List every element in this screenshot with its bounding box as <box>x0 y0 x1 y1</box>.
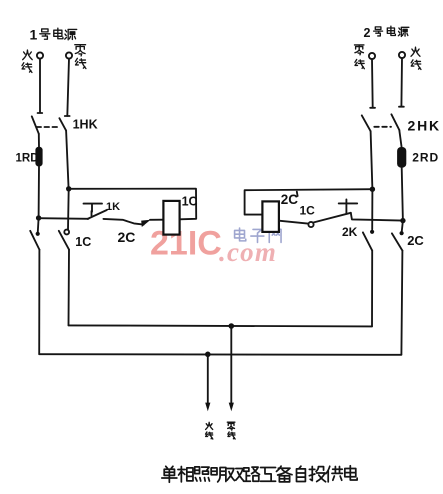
caption 单相照明双路互备自投供电 <box>162 466 357 482</box>
outer live bus <box>39 353 401 356</box>
terminal 零线 source 2 <box>369 53 375 59</box>
label 火线 (live, source 1) <box>22 50 32 72</box>
wire arrow to coil 1C <box>150 219 163 221</box>
contact 2C (NC interlock) arrowhead <box>141 220 150 227</box>
label 2C (main contacts) <box>407 233 424 248</box>
wire live-1 contact to outer bus <box>38 250 40 354</box>
label 1RD <box>16 152 39 164</box>
switch 2HK pole B blade <box>391 114 399 130</box>
terminal 火线 source 2 <box>399 52 405 58</box>
contact 2C main pole B stub <box>400 221 404 236</box>
label 2RD <box>412 151 439 165</box>
wire live-2 terminal to switch <box>399 58 404 106</box>
label 2HK <box>408 117 441 133</box>
contact 1C main pole A blade <box>30 231 39 250</box>
push button 1K actuator <box>84 204 103 216</box>
svg-text:21IC: 21IC <box>150 225 222 263</box>
junction neutral-2 / top wire <box>370 187 375 192</box>
label 1C (interlock contact) <box>300 204 316 218</box>
fuse 2RD <box>397 147 406 168</box>
junction neutral bus / output <box>229 323 235 329</box>
label 零线 (neutral, source 2) <box>354 45 364 69</box>
contact 1C blade <box>314 213 351 223</box>
contact 1C main pole B blade <box>59 231 69 250</box>
label 零线 (output neutral) <box>227 422 235 439</box>
contact 2C main pole A stub <box>370 230 374 234</box>
output neutral wire with arrow <box>229 326 234 411</box>
wire neutral-1 contact to inner bus <box>68 250 71 326</box>
svg-text:2HK: 2HK <box>408 117 441 133</box>
watermark .com script <box>219 237 277 267</box>
svg-text:1K: 1K <box>106 201 120 213</box>
svg-text:2RD: 2RD <box>412 151 439 165</box>
label 2号电源 (source 2) <box>364 26 409 40</box>
wire live-1 fuse to bus <box>38 166 40 218</box>
contact 1C (NC interlock) pivot circle <box>308 222 313 227</box>
wire neutral-1 from terminal to switch <box>65 59 70 117</box>
label 2C (coil) <box>281 192 299 208</box>
contact 2C main pole A blade <box>363 232 372 250</box>
switch 2HK pole A blade <box>362 115 371 131</box>
svg-text:1RD: 1RD <box>16 152 39 164</box>
svg-text:2C: 2C <box>281 192 299 207</box>
label 1号电源 (source 1) <box>30 27 77 43</box>
relay coil 2C <box>262 201 279 232</box>
wire neutral-1 junction down past bus <box>67 189 70 230</box>
label 1K <box>106 201 120 213</box>
inner neutral bus <box>69 325 373 326</box>
terminal 零线 source 1 <box>66 52 72 58</box>
junction live-1 / control bus <box>36 215 41 220</box>
svg-text:2K: 2K <box>342 225 358 239</box>
wire neutral-2 contact to inner bus <box>371 251 373 327</box>
terminal 火线 source 1 <box>37 52 43 58</box>
switch 1HK linkage dashes <box>37 126 60 128</box>
wire top right (neutral-2 to coil 2C) <box>245 189 373 214</box>
switch 1HK pole A blade <box>32 116 39 133</box>
wire neutral-2 switch to junction <box>371 131 373 189</box>
junction live bus / output <box>205 352 211 358</box>
junction neutral-1 / coil wire <box>66 186 71 191</box>
relay coil 1C <box>163 201 179 235</box>
wire neutral-2 terminal to switch <box>370 59 375 108</box>
switch 2HK linkage dashes <box>374 126 391 128</box>
junction live-2 / control bus <box>400 218 405 223</box>
wire coil 1C right side to neutral-1 <box>69 189 197 220</box>
contact 2C main pole B blade <box>392 233 403 250</box>
label 火线 (live, source 2) <box>411 47 421 69</box>
label 1HK <box>73 118 98 132</box>
watermark 电子网 <box>235 228 281 242</box>
wire neutral-2 junction down past bus <box>371 189 373 229</box>
svg-text:1HK: 1HK <box>73 118 98 132</box>
label 1C (coil) <box>182 194 198 208</box>
label 2K <box>342 225 358 239</box>
label 1C (main contacts) <box>75 235 91 249</box>
push button 2K actuator <box>339 199 358 213</box>
wire coil 2C right to 1C contact <box>279 221 308 224</box>
wire live-2 fuse to junction <box>402 168 403 221</box>
wire live-1 switch to fuse <box>38 134 40 147</box>
wire 1K to 2C contact <box>103 219 143 225</box>
wire live-2 switch to fuse <box>399 130 401 147</box>
wire control bus left (live-1 to 1K) <box>39 217 89 220</box>
contact 1C main pole B fixed circle <box>64 230 69 235</box>
svg-text:1C: 1C <box>75 235 91 249</box>
fuse 1RD <box>35 147 42 167</box>
push button 1K blade <box>88 210 107 219</box>
wire 2K to live-2 junction <box>351 213 403 221</box>
wire live-1 from terminal to switch <box>38 59 43 113</box>
svg-text:2: 2 <box>364 26 371 40</box>
watermark 21IC logo <box>150 225 222 263</box>
label 火线 (output live) <box>206 422 213 439</box>
svg-text:1: 1 <box>30 27 38 43</box>
contact 1C main pole A stub <box>36 218 40 236</box>
wire neutral-1 switch to junction <box>66 131 69 189</box>
svg-text:.com: .com <box>219 237 277 267</box>
svg-text:2C: 2C <box>407 233 424 248</box>
label 2C (interlock contact) <box>118 229 136 245</box>
switch 1HK pole B blade <box>59 118 66 130</box>
svg-text:1C: 1C <box>300 204 316 218</box>
output live wire with arrow <box>205 354 210 411</box>
svg-text:2C: 2C <box>118 229 136 245</box>
label 零线 (neutral, source 1) <box>75 45 86 69</box>
wire live-2 contact to outer bus <box>401 251 402 355</box>
